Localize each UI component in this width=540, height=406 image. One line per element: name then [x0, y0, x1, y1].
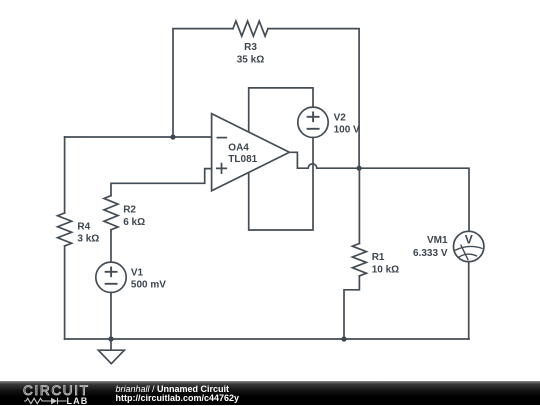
label VM1 value	[413, 235, 448, 259]
svg-text:6.333 V: 6.333 V	[413, 248, 448, 259]
svg-text:6 kΩ: 6 kΩ	[123, 217, 145, 228]
wire: top-right segment and right vertical down to output node	[268, 29, 359, 169]
svg-text:R2: R2	[123, 205, 136, 216]
wire: feedback loop left vertical and top-left segment	[173, 29, 233, 137]
CircuitLab logo resistor-diode glyph	[24, 397, 67, 405]
svg-text:OA4: OA4	[228, 143, 249, 154]
label R4 value	[77, 221, 99, 244]
voltage source V2	[298, 107, 328, 137]
svg-text:10 kΩ: 10 kΩ	[372, 264, 399, 275]
svg-text:R1: R1	[372, 252, 385, 263]
svg-text:35 kΩ: 35 kΩ	[237, 55, 264, 66]
wire: op-amp power rail lower loop (V2 bottom to V- pin)	[249, 138, 313, 231]
wire: R2 bottom to V1 top	[110, 230, 112, 262]
node: junction of R1 branch with bottom rail	[341, 336, 346, 341]
credits line 1	[116, 385, 230, 394]
svg-text:R3: R3	[244, 42, 257, 53]
wire: op-amp power rail upper (V+ pin to V2 top)	[249, 88, 313, 132]
wire: bottom rail	[65, 338, 469, 340]
svg-text:100 V: 100 V	[334, 125, 360, 136]
wire: inverting input horizontal	[65, 136, 212, 138]
svg-text:V1: V1	[131, 267, 144, 278]
svg-text:V2: V2	[334, 112, 347, 123]
ground	[98, 339, 124, 364]
wire: R2 top lead and non-inverting input jog	[111, 169, 212, 196]
resistor R2	[104, 196, 118, 230]
credits line 2	[116, 394, 240, 403]
wire: op-amp output with hop over power rail	[289, 152, 469, 231]
resistor R4	[58, 213, 72, 246]
wire: left rail upper (to R4)	[64, 137, 66, 213]
wire: V1 bottom to bottom rail	[110, 293, 112, 340]
svg-text:500 mV: 500 mV	[131, 280, 166, 291]
CircuitLab logo text	[23, 383, 90, 398]
svg-text:V: V	[465, 233, 473, 247]
node: output junction	[357, 166, 362, 171]
CircuitLab logo LAB text	[67, 396, 89, 406]
svg-text:R4: R4	[77, 221, 90, 232]
wire: R1 bottom lead with jog to bottom rail	[344, 276, 359, 339]
svg-text:VM1: VM1	[427, 235, 448, 246]
wire: VM1 bottom lead	[468, 262, 470, 339]
node: junction of V1 branch with bottom rail (ground node)	[108, 336, 113, 341]
footer bar	[0, 381, 540, 405]
resistor R3	[233, 21, 268, 36]
resistor R1	[352, 244, 366, 276]
op-amp OA4	[212, 114, 290, 191]
wire: R1 top lead	[358, 168, 360, 243]
voltmeter VM1	[454, 231, 484, 261]
wire: left rail lower (R4 to bottom)	[64, 246, 66, 339]
label V1 value	[131, 267, 166, 290]
voltage source V1	[96, 262, 126, 292]
label R3 value	[237, 42, 264, 66]
svg-text:TL081: TL081	[228, 154, 257, 165]
label OA4 TL081	[228, 143, 257, 166]
label R1 value	[372, 252, 399, 275]
node: junction of feedback and inverting input	[170, 134, 175, 139]
svg-text:3 kΩ: 3 kΩ	[77, 234, 99, 245]
label R2 value	[123, 205, 145, 228]
label V2 value	[334, 112, 360, 135]
